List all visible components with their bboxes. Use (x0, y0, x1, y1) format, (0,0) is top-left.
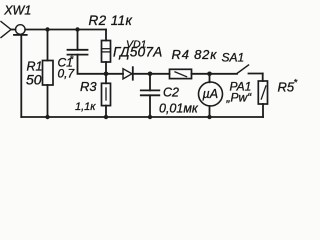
svg-text:SA1: SA1 (222, 51, 245, 65)
svg-text:R5: R5 (278, 80, 295, 95)
resistor R2 (102, 41, 111, 63)
svg-text:„Pw“: „Pw“ (226, 91, 253, 105)
capacitor C1 (68, 50, 88, 55)
wire bottom rail (21, 116, 263, 118)
wire node to diode (106, 73, 123, 75)
label R4 82к (172, 47, 218, 62)
svg-text:0,7: 0,7 (58, 67, 76, 81)
label PA1 Pw (226, 80, 253, 105)
wire R4 to meter node (192, 73, 238, 75)
svg-text:µA: µA (203, 87, 219, 101)
svg-text:C2: C2 (163, 86, 179, 100)
svg-text:ГД507А: ГД507А (113, 45, 163, 60)
label C1* 0,7 (58, 55, 76, 81)
wire C1 bottom to node (78, 55, 107, 74)
wire C2 node to R4 (150, 73, 170, 75)
node C1 top junction (75, 27, 79, 31)
node C2 bottom junction (148, 115, 152, 119)
wire diode to C2 node (133, 73, 150, 75)
svg-text:*: * (294, 78, 298, 89)
wire C1 top (77, 30, 79, 50)
svg-text:R4 82к: R4 82к (172, 47, 218, 62)
wire R3 bottom (105, 106, 107, 117)
resistor R4 (170, 69, 192, 78)
wire C2 top (149, 74, 151, 91)
wire R1 top (47, 30, 49, 61)
capacitor C2 (141, 90, 160, 95)
connector XW1 (1, 22, 27, 38)
wire top rail (25, 29, 106, 31)
svg-text:R2 11к: R2 11к (89, 13, 133, 28)
label C2 0,01мк (159, 86, 199, 116)
label R3 1,1к (75, 79, 97, 113)
meter PA1 (199, 82, 223, 106)
node detector junction (104, 72, 109, 77)
wire R1 bottom (47, 85, 49, 117)
node meter bottom junction (207, 115, 211, 119)
wire R5 bottom to rail corner (262, 104, 264, 117)
svg-text:1,1к: 1,1к (75, 101, 96, 113)
wire R2 bottom (105, 62, 107, 74)
node C2 junction (148, 72, 153, 77)
diode VD1 (123, 67, 133, 80)
wire switch to R5 (262, 74, 264, 82)
wire R3 top (105, 74, 107, 84)
wire meter bottom (209, 106, 211, 117)
resistor R1 (43, 61, 54, 86)
svg-text:0,01мк: 0,01мк (159, 102, 199, 116)
label R2 11к (89, 13, 133, 28)
node R1 bottom junction (45, 115, 49, 119)
node R3 bottom junction (104, 115, 108, 119)
svg-text:50: 50 (26, 72, 42, 88)
svg-text:*: * (70, 55, 75, 66)
node meter junction (207, 72, 212, 77)
svg-text:R3: R3 (80, 79, 97, 94)
resistor R5 (258, 81, 267, 104)
wire meter top (209, 74, 211, 83)
svg-text:XW1: XW1 (3, 4, 31, 18)
wire C2 bottom (149, 95, 151, 117)
label R1 50 (26, 60, 42, 88)
node R1 top junction (45, 27, 49, 31)
resistor R3 (102, 83, 111, 105)
wire R2 top corner (105, 30, 107, 41)
wire shield drop to bottom rail (20, 35, 22, 117)
switch SA1 (237, 65, 263, 74)
label VD1 ГД507А (113, 39, 163, 60)
